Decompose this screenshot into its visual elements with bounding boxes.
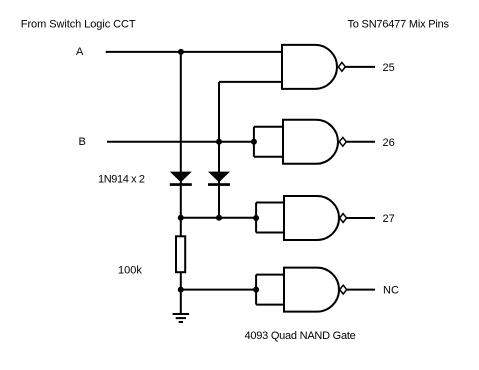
svg-text:To SN76477 Mix Pins: To SN76477 Mix Pins (348, 19, 450, 31)
gate U1B input stub bottom (254, 156, 283, 158)
svg-text:1N914 x 2: 1N914 x 2 (98, 174, 145, 186)
NAND gate U1A body (282, 45, 337, 89)
junction dot on A wire (178, 49, 184, 55)
gate U1B output inversion diamond (339, 137, 346, 146)
junction dot gate U1B input (251, 139, 257, 145)
wire: gate U1B output (346, 141, 375, 143)
gate U1C output inversion diamond (340, 214, 347, 223)
gate U1C input tie vertical (255, 203, 257, 233)
NAND gate U1C body (284, 196, 339, 240)
resistor R1 100k body (176, 236, 185, 272)
wire: gate U1A lower input horizontal (219, 81, 282, 83)
wire: row-3 horizontal (diode cathodes to gate U1C input) (181, 217, 256, 219)
svg-text:4093 Quad NAND Gate: 4093 Quad NAND Gate (245, 330, 356, 342)
wire: vertical into resistor top (180, 218, 182, 237)
svg-text:100k: 100k (118, 265, 142, 277)
junction dot on B wire at diode D2 branch (216, 139, 222, 145)
diode D1 cathode bar (170, 183, 192, 186)
junction dot row-3 at diode D1 branch (178, 215, 184, 221)
wire: row-4 horizontal (to gate U1D input) (181, 289, 256, 291)
gate U1D input stub top (256, 274, 284, 276)
wire: vertical from A junction down through diode D1 to row-3 node (180, 52, 182, 218)
junction dot row-3 at diode D2 branch (216, 215, 222, 221)
svg-text:27: 27 (383, 213, 395, 225)
wire: vertical from gate U1A lower input down through diode D2 to row-3 node (218, 82, 220, 218)
ground symbol (173, 314, 190, 322)
svg-text:B: B (79, 136, 86, 148)
NAND gate U1B body (283, 120, 338, 164)
wire: gate U1A output (345, 66, 375, 68)
gate U1A output inversion diamond (338, 62, 345, 71)
wire: gate U1C output (347, 217, 375, 219)
wire: input A horizontal (106, 51, 282, 53)
junction dot gate U1D input (253, 287, 259, 293)
gate U1D input stub bottom (256, 304, 284, 306)
junction dot row-4 at resistor branch (178, 287, 184, 293)
svg-text:NC: NC (383, 285, 399, 297)
gate U1B input tie vertical (253, 127, 255, 157)
diode D2 cathode bar (208, 183, 230, 186)
gate U1B input stub top (254, 126, 283, 128)
svg-text:26: 26 (383, 137, 395, 149)
diode D2 (1N914) anode triangle (208, 172, 230, 183)
svg-text:A: A (76, 46, 84, 58)
svg-text:25: 25 (383, 62, 395, 74)
wire: resistor bottom to ground (180, 272, 182, 313)
gate U1D output inversion diamond (340, 285, 347, 294)
gate U1D input tie vertical (255, 275, 257, 305)
svg-text:From Switch Logic CCT: From Switch Logic CCT (21, 19, 136, 31)
NAND gate U1D body (284, 268, 339, 312)
diode D1 (1N914) anode triangle (170, 172, 192, 183)
wire: input B horizontal (107, 141, 254, 143)
gate U1C input stub top (256, 202, 284, 204)
wire: gate U1D output (347, 289, 375, 291)
gate U1C input stub bottom (256, 232, 284, 234)
junction dot gate U1C input (253, 215, 259, 221)
